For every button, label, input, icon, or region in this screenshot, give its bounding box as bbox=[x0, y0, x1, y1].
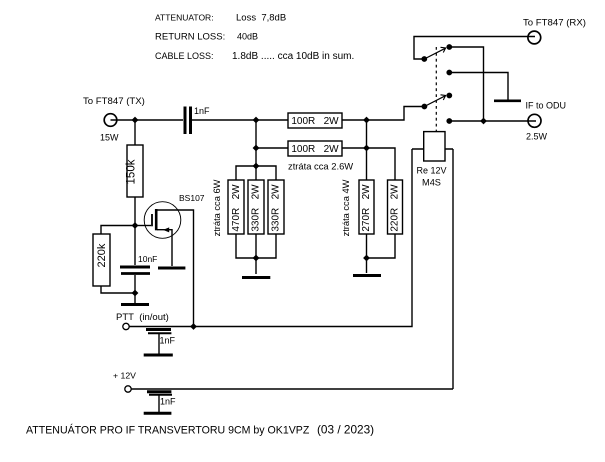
capacitor C2 10nF plates bbox=[120, 267, 150, 274]
svg-text:ATTENUÁTOR PRO IF TRANSVERTORU: ATTENUÁTOR PRO IF TRANSVERTORU 9CM by OK… bbox=[26, 424, 310, 437]
svg-text:(03 / 2023): (03 / 2023) bbox=[317, 423, 374, 437]
svg-text:1.8dB ..... cca 10dB in sum.: 1.8dB ..... cca 10dB in sum. bbox=[232, 51, 354, 62]
wire switch contact 2 to ground bbox=[449, 73, 508, 100]
wire RX terminal to switch pole 1 bbox=[414, 37, 535, 60]
svg-text:To FT847 (RX): To FT847 (RX) bbox=[523, 18, 586, 29]
svg-text:ATTENUATOR:: ATTENUATOR: bbox=[155, 13, 214, 23]
junction node left bank bottom bbox=[253, 255, 260, 262]
wire R1 bottom to gate node bbox=[134, 197, 136, 226]
terminal PTT bbox=[123, 323, 129, 329]
svg-text:IF to ODU: IF to ODU bbox=[526, 101, 567, 111]
svg-text:1nF: 1nF bbox=[194, 106, 210, 116]
ground under right resistor bank bbox=[353, 274, 381, 277]
junction node R4 left bbox=[253, 145, 260, 152]
wire node B vertical x366 (R3/R4 right to R8 top) bbox=[366, 120, 368, 180]
svg-text:1nF: 1nF bbox=[160, 336, 176, 346]
junction node R3 right bbox=[363, 117, 370, 124]
wire gate node down to C2 10nF bbox=[134, 226, 136, 266]
resistor R2 220k bbox=[93, 234, 110, 286]
terminal To FT847 (RX) bbox=[528, 31, 541, 44]
switch contact dot 2 bbox=[446, 70, 452, 76]
wire PTT line to relay coil left bbox=[130, 149, 413, 327]
junction node left bank top bbox=[253, 163, 260, 170]
capacitor C1 1nF series bbox=[185, 107, 191, 135]
svg-text:150k: 150k bbox=[126, 159, 138, 184]
resistor R7 330R 2W bbox=[268, 180, 284, 234]
wire switch contact 4 to ODU terminal bbox=[449, 120, 536, 122]
wire R4 output to R9 top bbox=[342, 148, 395, 180]
ground at Q1 source bbox=[158, 267, 185, 270]
svg-text:330R 2W: 330R 2W bbox=[251, 184, 262, 232]
wire bottom bus of right resistor bank bbox=[367, 234, 396, 273]
junction node output bbox=[480, 118, 487, 125]
svg-text:10nF: 10nF bbox=[138, 254, 157, 264]
junction node at C1/R3 bbox=[253, 117, 260, 124]
junction node R2/C2 ground bbox=[132, 290, 139, 297]
wire relay coil terminals bbox=[412, 148, 453, 150]
ground under left resistor bank bbox=[242, 276, 270, 279]
terminal +12V bbox=[125, 386, 131, 392]
svg-text:ztráta cca 6W: ztráta cca 6W bbox=[212, 179, 222, 236]
switch S2 arm (TX pole) bbox=[424, 95, 445, 107]
svg-text:220k: 220k bbox=[96, 243, 108, 267]
wire source of Q1 to ground bbox=[157, 230, 172, 266]
svg-text:Loss 7,8dB: Loss 7,8dB bbox=[236, 13, 286, 24]
switch pole dot 1 bbox=[421, 56, 427, 62]
terminal To FT847 (TX) bbox=[104, 114, 117, 127]
junction node gate bbox=[132, 222, 139, 229]
wire C2 bottom to ground bbox=[134, 275, 136, 303]
resistor R5 470R 2W bbox=[228, 180, 244, 234]
relay RE1 coil Re 12V M4S bbox=[424, 47, 445, 161]
wire bottom bus of left resistor bank bbox=[236, 234, 276, 274]
wire node A vertical x256 bbox=[255, 120, 257, 166]
resistor R6 330R 2W bbox=[248, 180, 264, 234]
resistor R9 220R 2W bbox=[388, 180, 403, 234]
svg-text:CABLE LOSS:: CABLE LOSS: bbox=[155, 51, 214, 61]
switch contact dot 3 bbox=[446, 93, 452, 99]
svg-text:Re 12V: Re 12V bbox=[416, 166, 446, 176]
junction node R4 right bbox=[363, 145, 370, 152]
capacitor C3 1nF at PTT bbox=[146, 330, 171, 354]
svg-text:1nF: 1nF bbox=[160, 397, 176, 407]
svg-text:470R 2W: 470R 2W bbox=[231, 184, 242, 232]
wire TX input to C1 bbox=[111, 119, 184, 121]
svg-text:PTT (in/out): PTT (in/out) bbox=[116, 312, 169, 323]
junction node drain/PTT bbox=[190, 323, 197, 330]
wire +12V line bbox=[132, 388, 454, 390]
svg-text:100R 2W: 100R 2W bbox=[291, 144, 339, 155]
svg-text:220R 2W: 220R 2W bbox=[390, 184, 401, 232]
switch S1 arm (RX pole) bbox=[424, 47, 445, 59]
resistor R3 100R 2W bbox=[288, 113, 342, 128]
resistor R1 150k bbox=[126, 145, 143, 197]
wire R3 output to switch pole 2 bbox=[342, 107, 422, 121]
wire node A down to R1 150k bbox=[134, 120, 136, 145]
wire switch contact 1 to output node bbox=[449, 47, 483, 121]
svg-text:2.5W: 2.5W bbox=[526, 132, 548, 142]
svg-text:ztráta cca 2.6W: ztráta cca 2.6W bbox=[288, 161, 353, 172]
svg-text:M4S: M4S bbox=[422, 178, 441, 188]
svg-text:+ 12V: + 12V bbox=[113, 371, 136, 381]
ground under C2/R2 bbox=[121, 303, 149, 306]
svg-text:15W: 15W bbox=[100, 133, 119, 143]
svg-text:40dB: 40dB bbox=[237, 32, 258, 42]
transistor Q1 BS107 bbox=[144, 202, 181, 239]
ground at switch contact 2 bbox=[494, 100, 521, 103]
resistor R4 100R 2W bbox=[288, 141, 342, 156]
wire top bus of left resistor bank bbox=[236, 166, 276, 180]
junction node A at TX input bbox=[132, 117, 139, 124]
wire C1 to R3 100R (node A) bbox=[192, 119, 288, 121]
capacitor C4 1nF at +12V bbox=[147, 392, 172, 412]
switch contact dot 1 bbox=[446, 44, 452, 50]
terminal IF to ODU bbox=[528, 114, 541, 127]
wire relay coil right to +12V line bbox=[452, 149, 454, 389]
svg-text:270R 2W: 270R 2W bbox=[361, 184, 372, 232]
svg-text:To FT847 (TX): To FT847 (TX) bbox=[83, 96, 145, 107]
switch contact dot 4 bbox=[446, 118, 452, 124]
svg-text:RETURN LOSS:: RETURN LOSS: bbox=[155, 32, 225, 43]
wire gate node to R2 220k bbox=[101, 226, 135, 235]
wire R2 bottom to ground node bbox=[101, 286, 135, 293]
resistor R8 270R 2W bbox=[359, 180, 374, 234]
wire drain of Q1 to PTT line bbox=[156, 210, 194, 327]
junction node right bank bottom bbox=[363, 255, 370, 262]
svg-text:ztráta cca 4W: ztráta cca 4W bbox=[341, 179, 351, 236]
wire gate lead of Q1 bbox=[135, 225, 151, 227]
ground under C4 bbox=[144, 412, 172, 415]
wire node A to R4 100R input bbox=[256, 147, 288, 149]
svg-text:100R 2W: 100R 2W bbox=[291, 116, 339, 127]
svg-text:330R 2W: 330R 2W bbox=[271, 184, 282, 232]
svg-text:BS107: BS107 bbox=[179, 193, 205, 203]
switch pole dot 2 bbox=[422, 104, 428, 110]
ground under C3 bbox=[144, 354, 173, 357]
